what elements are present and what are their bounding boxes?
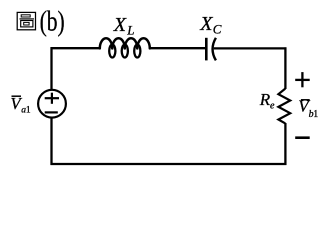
svg-text:1: 1	[26, 106, 31, 116]
figure label 圖 (drawn glyph)	[17, 12, 35, 29]
svg-text:X: X	[199, 13, 213, 35]
inductor XL coil	[100, 38, 150, 57]
wire top-left horizontal	[51, 47, 101, 49]
source plus	[45, 93, 59, 104]
resistor Re zigzag	[278, 89, 290, 124]
svg-text:1: 1	[313, 109, 318, 120]
source minus	[45, 111, 58, 113]
svg-text:(b): (b)	[40, 7, 65, 37]
svg-text:X: X	[113, 14, 127, 36]
svg-text:R: R	[259, 90, 271, 109]
wire capacitor to top-right corner	[214, 47, 287, 49]
wire right vertical lower	[284, 123, 286, 165]
wire bottom horizontal	[51, 163, 287, 165]
svg-text:e: e	[270, 101, 275, 112]
source Va1 circle	[38, 90, 66, 118]
svg-text:C: C	[213, 21, 222, 36]
wire left vertical upper	[50, 47, 52, 90]
label Vb1	[301, 99, 310, 101]
wire left vertical lower	[50, 117, 52, 165]
label Va1	[12, 95, 22, 97]
polarity minus (right)	[295, 136, 310, 139]
svg-text:L: L	[126, 22, 134, 37]
wire right vertical upper	[284, 47, 286, 89]
wire inductor to capacitor	[150, 47, 207, 49]
capacitor XC plates	[205, 38, 208, 61]
polarity plus (right)	[295, 72, 310, 87]
